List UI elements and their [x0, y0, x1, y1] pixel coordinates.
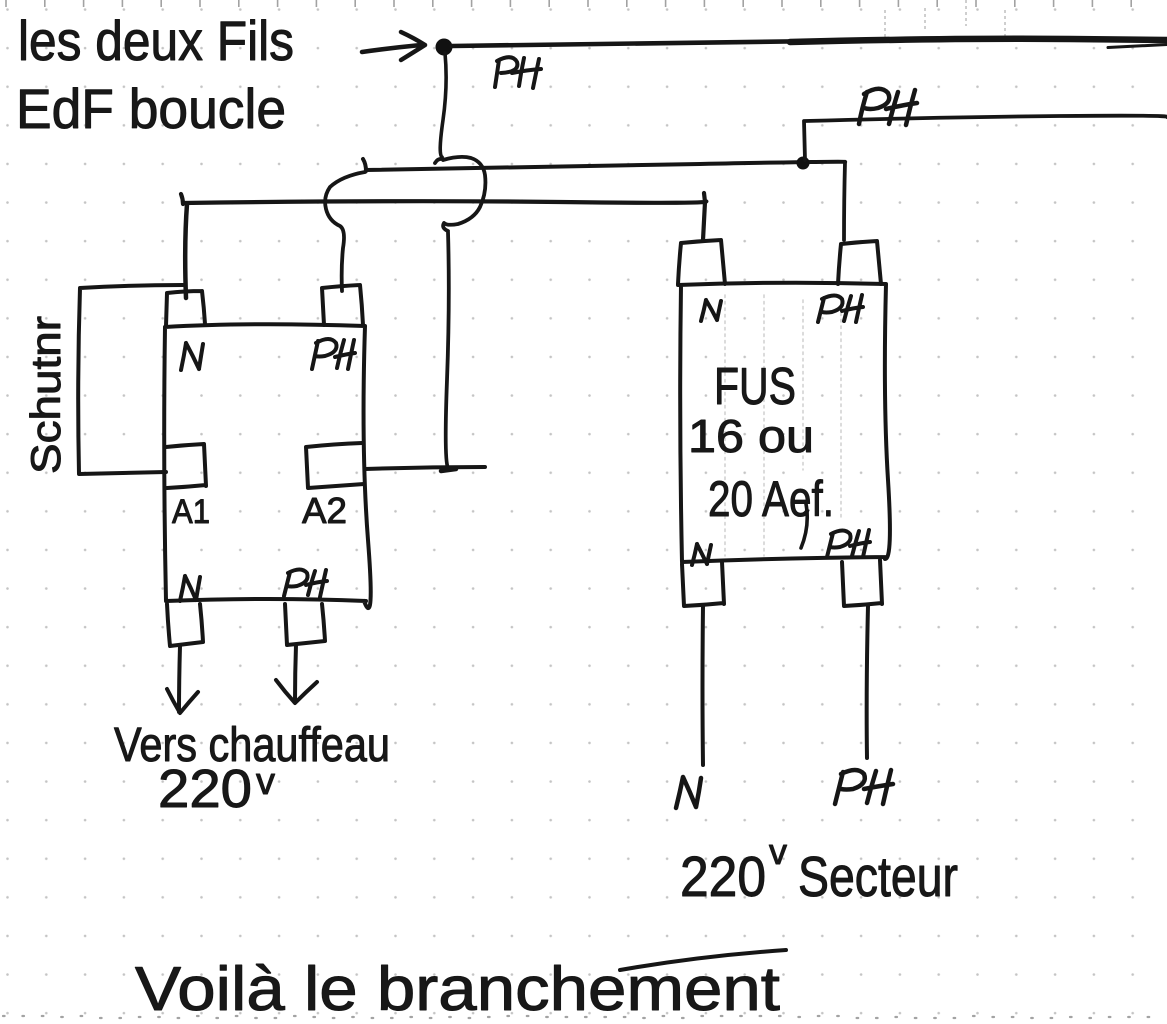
- wire top line doubled end: [1108, 45, 1167, 48]
- node PH junction dot top: [436, 39, 453, 56]
- arrow down right (vers chauffeau): [276, 645, 317, 703]
- contactor terminal A1: [166, 444, 206, 488]
- svg-text:Voilà le branchement: Voilà le branchement: [135, 955, 780, 1024]
- svg-text:FUS: FUS: [714, 358, 796, 416]
- label PH (fuse bottom): [827, 530, 870, 557]
- svg-text:A1: A1: [172, 493, 210, 531]
- svg-text:Schutnr: Schutnr: [22, 316, 69, 474]
- label PH (contactor top): [312, 339, 355, 369]
- wire PH upper right line: [804, 116, 1167, 160]
- svg-text:20 Aef.: 20 Aef.: [708, 471, 834, 527]
- fuse FUS box: [678, 283, 890, 562]
- contactor terminal A2: [306, 443, 364, 488]
- grid faint vertical fragments top right (decorative): [885, 0, 1005, 40]
- fuse terminal PH bottom: [842, 560, 882, 606]
- fuse terminal N top: [678, 240, 725, 284]
- grid top edge dashes (decorative): [6, 0, 1131, 7]
- svg-text:v: v: [256, 761, 275, 803]
- contactor terminal PH bottom: [285, 604, 325, 645]
- grid bottom dotted row (decorative): [3, 1016, 1149, 1018]
- contactor terminal N top: [166, 291, 205, 326]
- grid faint verticals in fuse box (decorative): [725, 295, 841, 556]
- wire PH horizontal (second line): [363, 159, 845, 171]
- contactor terminal N bottom: [167, 604, 203, 646]
- node PH junction dot right: [797, 157, 810, 170]
- label N (fuse bottom): [692, 544, 711, 565]
- label N (fuse top): [701, 300, 721, 321]
- label PH (below top wire): [495, 57, 541, 88]
- svg-text:les deux Fils: les deux Fils: [18, 9, 294, 72]
- wire end tick at A2 row: [441, 469, 456, 471]
- svg-text:A2: A2: [302, 490, 347, 531]
- wire from N line down to contactor N terminal: [185, 204, 187, 298]
- label N (contactor bottom): [180, 576, 200, 601]
- fuse terminal N bottom: [682, 562, 724, 606]
- label N (contactor top): [181, 343, 203, 370]
- svg-text:v: v: [769, 831, 787, 872]
- svg-text:220: 220: [680, 845, 766, 909]
- wire N down to secteur: [701, 606, 706, 765]
- label PH (fuse top): [818, 295, 863, 322]
- label PH (secteur): [835, 770, 893, 804]
- wire from PH node down to loop: [440, 53, 446, 157]
- svg-text:16 ou: 16 ou: [688, 410, 814, 462]
- wire hook from PH line down to contactor PH terminal: [325, 172, 365, 291]
- wire corner down to fuse PH terminal: [844, 162, 845, 240]
- svg-text:220: 220: [158, 759, 252, 819]
- label PH (right, above line): [859, 89, 917, 125]
- arrow pointing to PH node: [362, 32, 425, 60]
- svg-text:EdF boucle: EdF boucle: [16, 77, 286, 140]
- wire PH top thick line: [452, 41, 820, 46]
- label PH (contactor bottom): [284, 570, 327, 598]
- svg-text:Secteur: Secteur: [798, 845, 958, 909]
- arrow down left (vers chauffeau): [167, 646, 198, 713]
- label N (secteur): [676, 777, 701, 808]
- contactor K1 main box: [164, 324, 371, 608]
- fuse terminal PH top: [838, 241, 881, 284]
- wire from A2 to loop drop: [365, 467, 485, 469]
- svg-text:Vers chauffeau: Vers chauffeau: [114, 719, 390, 772]
- label f descender stroke: [801, 504, 807, 548]
- contactor terminal PH top: [322, 285, 363, 325]
- flourish stroke over branchement: [620, 950, 786, 970]
- wire N horizontal line: [181, 193, 706, 240]
- wire PH down to secteur: [867, 606, 868, 758]
- wire loop (boucle) and drop to A2 row: [435, 157, 485, 468]
- contactor outer shunt rectangle: [78, 285, 183, 474]
